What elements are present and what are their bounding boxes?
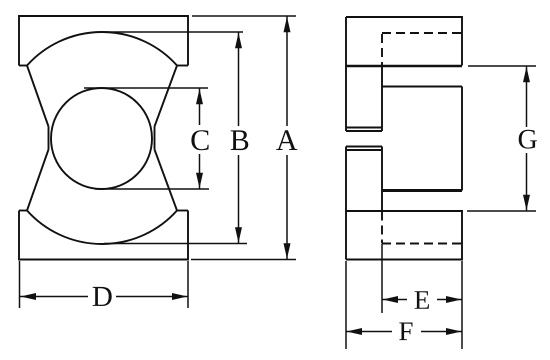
side view inner vertical upper xyxy=(381,66,383,131)
side view inner vertical lower xyxy=(381,147,383,212)
side view top plate bottom edge xyxy=(346,65,462,67)
arrow A top xyxy=(284,17,291,33)
top core half skirt arc xyxy=(27,32,177,66)
top core half plate (front view) xyxy=(19,16,188,66)
label D xyxy=(93,287,112,306)
window top edge xyxy=(382,86,462,88)
left mating flat xyxy=(48,127,50,150)
dim D left extension line xyxy=(19,261,21,308)
dim C bottom extension line xyxy=(95,188,209,190)
window right edge xyxy=(461,87,463,191)
arrow C top xyxy=(196,89,203,105)
dim B bottom extension line xyxy=(104,243,247,245)
bottom half left angled edge xyxy=(27,150,49,211)
dim E line xyxy=(382,299,407,301)
arrow G bottom xyxy=(523,195,530,211)
hidden contour dashed top vertical xyxy=(381,34,383,65)
hidden contour dashed bottom horizontal xyxy=(382,243,462,245)
dim A line xyxy=(286,16,288,126)
arrow C bottom xyxy=(196,173,203,189)
dim G bottom extension line xyxy=(467,210,536,212)
label E xyxy=(415,291,429,309)
seam lower double line xyxy=(346,146,382,148)
top half right angled edge xyxy=(155,66,178,127)
arrow B bottom xyxy=(235,227,242,243)
dim A bottom extension line xyxy=(191,259,296,261)
arrow E right xyxy=(446,296,462,303)
bottom core half skirt arc xyxy=(27,211,177,245)
label F xyxy=(399,323,412,341)
arrow D left xyxy=(21,293,37,300)
center post circle xyxy=(51,88,152,189)
hidden contour dashed bottom vertical xyxy=(381,212,383,244)
label C xyxy=(191,130,208,150)
side view left outer edge lower xyxy=(345,147,347,260)
window bottom edge (thick) xyxy=(382,189,462,192)
arrow B top xyxy=(235,33,242,49)
dim F left extension line xyxy=(345,261,347,349)
arrow D right xyxy=(172,293,188,300)
seam upper double line xyxy=(346,127,382,129)
bottom half right angled edge xyxy=(155,150,178,211)
arrow F left xyxy=(347,328,363,335)
dim B top extension line xyxy=(100,31,243,33)
hidden contour dashed top horizontal xyxy=(382,32,462,34)
dim D line xyxy=(20,296,88,298)
label B xyxy=(231,130,249,150)
arrow A bottom xyxy=(284,243,291,258)
dim C line xyxy=(199,88,201,125)
dim A top extension line xyxy=(192,15,296,17)
dim G top extension line xyxy=(468,65,536,67)
arrow F right xyxy=(446,328,462,335)
side view left outer edge upper xyxy=(345,17,347,131)
dim G line xyxy=(526,66,528,127)
bottom core half plate (front view) xyxy=(19,211,188,260)
right mating flat xyxy=(154,127,156,150)
side view bottom plate xyxy=(346,211,462,260)
label G xyxy=(519,130,537,149)
side view xyxy=(346,17,462,260)
top half left angled edge xyxy=(27,66,49,127)
arrow E left xyxy=(383,296,399,303)
side view top plate xyxy=(346,17,462,66)
dim D right extension line xyxy=(187,261,189,308)
arrow G top xyxy=(523,67,530,83)
dim E/F right extension line xyxy=(461,261,463,349)
label A xyxy=(276,130,297,150)
dimension lines group xyxy=(20,16,297,308)
dim B line xyxy=(238,32,240,126)
dim C top extension line xyxy=(84,87,208,89)
dim F line xyxy=(346,331,392,333)
dim E left extension line xyxy=(381,244,383,314)
